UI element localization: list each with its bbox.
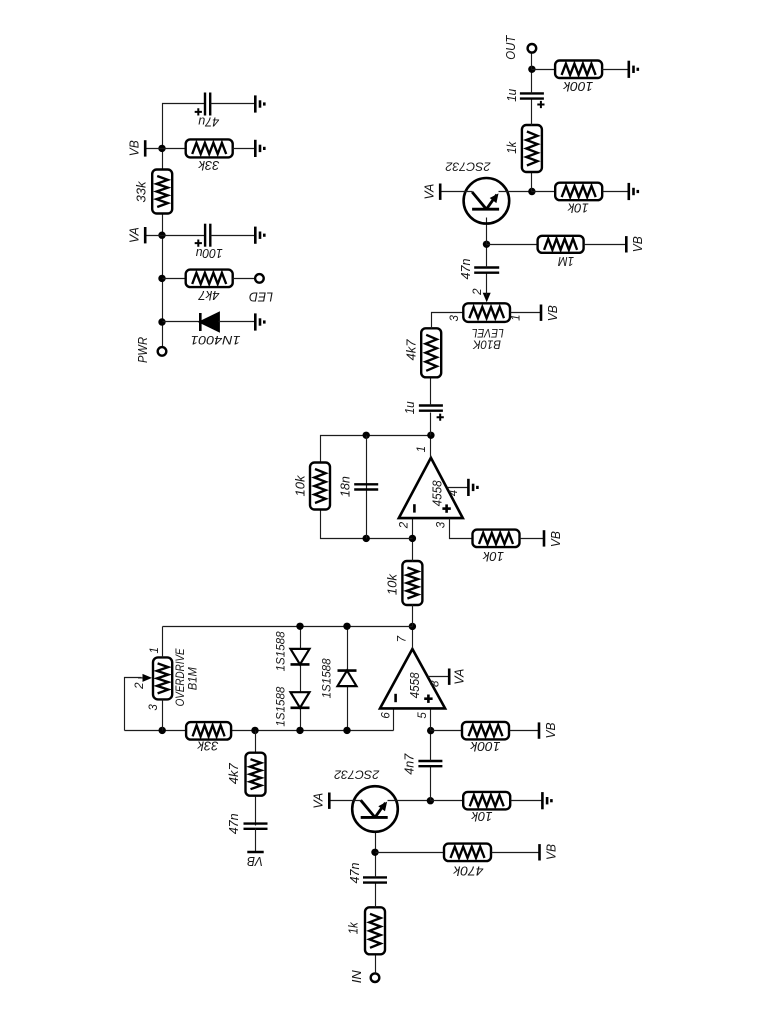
wire D 1N4001 to ground [219,321,256,323]
inverting input mark U1A [394,694,397,702]
wire pin 3 to R 10k [450,519,474,539]
ground (pin 4) [468,479,477,496]
terminal LED [255,274,264,283]
label 4n7 [401,753,416,775]
wire R 100k to ground [602,69,629,71]
svg-text:LEVEL: LEVEL [472,326,504,338]
svg-text:5: 5 [417,712,429,719]
terminal VB (100k) [538,722,541,738]
junction node Q1 base [371,849,378,856]
junction diode pair left [296,727,303,734]
svg-text:47n: 47n [347,863,362,884]
potentiometer LEVEL B10K [463,303,510,322]
label 33k (divider) [197,158,219,173]
junction op-amp pin 5 node [427,727,434,734]
resistor 10k (interstage) [402,561,422,605]
svg-text:VB: VB [548,531,563,547]
potentiometer OVERDRIVE B1M [153,657,172,699]
label pot pin 1 [149,647,161,653]
svg-text:IN: IN [349,970,364,984]
wire emitter to R 1k [531,171,533,192]
wire 100u to ground [211,235,256,237]
label 1M [558,254,574,269]
label 1k (output) [504,140,519,153]
diode D1 1S1588 (series pair) [291,649,310,665]
capacitor 47n (gain) [244,824,268,829]
svg-text:47n: 47n [458,259,473,280]
svg-text:VB: VB [127,140,142,156]
resistor 4k7 (LED) [186,270,233,288]
resistor 10k (pin3 bias) [473,530,520,548]
wire Q2 collector to VA [441,191,473,193]
wire Q1 collector to VA [330,800,362,802]
svg-text:4k7: 4k7 [198,288,220,303]
resistor 1M (Q2 bias) [538,236,584,253]
terminal OUT [528,44,537,53]
label 1k [345,921,360,934]
wire rail to D 1N4001 [163,321,201,323]
label node VB (LEVEL) [545,305,560,321]
wire LEVEL pin 1 to VB [511,312,541,314]
label pin 2 [399,521,411,529]
svg-text:1: 1 [511,314,523,320]
terminal VA (Q2) [439,184,442,200]
wire R 10k to ground [511,800,543,802]
label node VB (rail) [127,140,142,156]
junction U1A output [409,623,416,630]
ground (100u) [255,227,264,244]
label 1S1588 (D1) [275,631,287,672]
label LEVEL pin 2 [472,288,484,296]
svg-text:8: 8 [430,680,442,687]
label 1u (interstage) [402,401,417,414]
wire OUT node to R 100k [532,69,556,71]
label 4k7 (level) [404,339,419,361]
junction pot pin3 [159,727,166,734]
svg-text:3: 3 [436,521,448,528]
svg-text:4k7: 4k7 [404,339,419,361]
label LEVEL [472,326,504,338]
wire base into Q2 [486,218,488,245]
wire C 47n to Q2 base [486,245,488,268]
svg-text:100k: 100k [469,739,501,754]
svg-text:OUT: OUT [503,35,518,60]
wire emitter junction to C 4n7 [430,767,432,801]
wire pin 4 to ground [448,487,469,489]
svg-text:100u: 100u [196,246,223,261]
svg-text:B1M: B1M [188,667,200,690]
non-inverting input mark U1B [442,504,450,512]
svg-text:2: 2 [399,521,411,529]
label 4558 (U1A) [407,672,422,699]
label LEVEL pin 3 [449,315,461,322]
svg-text:1k: 1k [345,921,360,934]
label node VB (100k) [543,722,558,738]
wire 47u to ground [211,103,256,105]
label LEVEL pin 1 [511,314,523,320]
label 47n (gain) [226,813,241,834]
diode D3 1S1588 (reverse) [338,671,357,687]
svg-text:1S1588: 1S1588 [275,686,287,727]
svg-text:LED: LED [249,290,273,305]
svg-text:VB: VB [247,854,263,869]
wire IN to R 1k [375,954,377,974]
resistor 100k (output load) [555,61,602,79]
wire R 1M to VB [584,244,627,246]
svg-text:2SC732: 2SC732 [445,160,491,174]
ground (VB divider) [255,140,264,157]
svg-text:10k: 10k [566,201,588,216]
svg-text:VB: VB [544,844,559,860]
label 100k (output) [562,79,594,94]
junction pin 2 node [409,535,416,542]
svg-text:4k7: 4k7 [226,762,241,784]
label 10k (Q2) [566,201,588,216]
capacitor 47n (output coupling) [474,268,499,273]
svg-text:10k: 10k [482,549,504,564]
label pin 3 [436,521,448,528]
svg-text:47n: 47n [226,813,241,834]
resistor 33k (feedback series) [186,722,231,740]
wire Q2 emitter down [499,191,532,193]
wire R 4k7 to C 47n [255,797,257,826]
label 2SC732 (Q1) [334,767,380,781]
label node OUT [503,35,518,60]
transistor Q1 2SC732 (input buffer) [352,786,398,832]
label 1S1588 (D2) [275,686,287,727]
junction rail/4k7-LED [158,275,165,282]
label OVERDRIVE [175,648,187,706]
svg-text:100k: 100k [562,79,594,94]
wire 33k to ground [233,148,256,150]
svg-text:B10K: B10K [472,337,501,349]
svg-text:33k: 33k [197,158,219,173]
wire R 4k7 to LED terminal [233,278,256,280]
label node LED [249,290,273,305]
junction single diode left [343,727,350,734]
LEVEL wiper arrow [483,293,491,303]
polarity + (47u) [195,108,202,115]
svg-text:4558: 4558 [430,480,445,507]
label 1u (output) [504,89,519,102]
label node PWR [135,337,150,363]
capacitor 47n (input) [363,877,387,882]
label node VA (Q1) [311,793,326,809]
junction 33k/4k7 node [251,727,258,734]
label 4k7 (LED) [198,288,220,303]
label 10k (Q1) [470,809,492,824]
svg-text:6: 6 [380,712,392,719]
wire power rail PWR to 47u [163,104,206,352]
label 10k (interstage) [384,573,399,595]
svg-text:1N4001: 1N4001 [191,333,241,347]
wire R 10k to pin 2 [412,519,414,562]
wire R 4k7 to pot pin 3 [432,313,464,329]
terminal VB (gain branch) [247,851,263,854]
resistor 10k (U1B feedback) [310,463,330,510]
svg-text:2: 2 [134,682,146,690]
wire C 47n to VB [255,829,257,852]
capacitor 4n7 (coupling) [418,761,442,766]
op-amp U1A 4558 (first stage) [380,649,445,708]
svg-text:VA: VA [127,227,142,243]
label pin 5 [417,712,429,719]
wire Q1 emitter to junction [388,800,431,802]
wire diode pair branch [300,627,302,731]
wire VA stub and 100u [146,235,206,237]
terminal VA (rail) [144,227,147,243]
wire pin 1 output [430,436,432,458]
svg-text:10k: 10k [292,474,307,496]
wire U1A out to R 10k [412,605,414,627]
wire R 10k to ground [603,191,629,193]
label 100k (pin5) [469,739,501,754]
svg-text:1k: 1k [504,140,519,153]
capacitor 1u (output electrolytic) [520,93,544,98]
label 4k7 (gain) [226,762,241,784]
label node IN [349,970,364,984]
wire pin 7 output [412,627,414,649]
non-inverting input mark U1A [424,695,432,703]
junction OUT node [528,66,535,73]
svg-text:VA: VA [452,669,467,685]
junction single diode right [343,623,350,630]
svg-text:1: 1 [149,647,161,653]
terminal VB (LEVEL) [540,305,543,321]
label 4558 (U1B) [430,480,445,507]
wire pot wiper [125,678,142,731]
ground (1N4001) [255,313,264,330]
polarity + (1u interstage) [437,414,444,421]
resistor 470k (bias) [444,844,491,862]
label pin 8 [430,680,442,687]
svg-text:1S1588: 1S1588 [322,658,334,699]
wire to R 4k7 (gain) [255,731,257,752]
terminal VB (470k) [538,844,541,860]
label B10K [472,337,501,349]
wire rail to R 4k7 (LED) [163,278,187,280]
label 33k (feedback) [196,739,218,754]
label 2SC732 (Q2) [445,160,491,174]
wire C 1u to R 4k7 [430,377,432,406]
resistor 4k7 (gain) [246,753,266,796]
terminal VB (pin3) [543,530,546,546]
ground (Q1 emitter) [542,792,551,809]
svg-text:2: 2 [472,288,484,296]
label node VB (gain) [247,854,263,869]
svg-text:33k: 33k [196,739,218,754]
label 47u [198,114,219,129]
wire C 4n7 to op-amp pin 5 [430,731,432,761]
label pot pin 2 [134,682,146,690]
svg-text:10k: 10k [384,573,399,595]
polarity + (output 1u) [537,101,544,108]
svg-text:4n7: 4n7 [401,753,416,775]
wire 18n branch [366,436,368,539]
wire R 470k to VB [492,852,540,854]
wire pin5 node to R 100k [431,730,462,732]
label 10k (U1B feedback) [292,474,307,496]
diode D2 1S1588 (series pair) [291,692,310,708]
resistor 33k (rail series) [152,170,172,214]
label 1S1588 (D3) [322,658,334,699]
wire right rail (pot1 to output) [163,626,413,628]
label pot pin 3 [148,704,160,711]
transistor Q2 2SC732 (output buffer) [464,178,510,224]
svg-text:18n: 18n [338,476,353,497]
junction rail/VA node [158,232,165,239]
label 47n (output) [458,259,473,280]
label 1N4001 [191,333,241,347]
svg-text:7: 7 [396,635,408,642]
wire R 1k to C 1u [531,99,533,126]
svg-text:4: 4 [448,490,460,496]
label 100u [196,246,223,261]
capacitor 18n (U1B feedback) [354,484,378,489]
junction rail/1N4001 [158,318,165,325]
ground (47u) [255,95,264,112]
svg-text:1S1588: 1S1588 [275,631,287,672]
junction Q1 emitter [427,797,434,804]
resistor 1k (output) [522,125,542,172]
wire emitter to R 10k [431,800,464,802]
resistor 1k (input) [365,907,385,954]
svg-text:VA: VA [422,184,437,200]
label node VB (pin3) [548,531,563,547]
resistor 10k (Q2 emitter) [555,183,602,201]
svg-text:PWR: PWR [135,337,150,363]
capacitor 47u (VB filter) [205,93,210,116]
wire C 1u to OUT node [531,70,533,94]
wire pin 8 to VA [428,676,449,678]
junction Q2 base [483,241,490,248]
svg-text:VA: VA [311,793,326,809]
label 47n [347,863,362,884]
label pin 7 [396,635,408,642]
ground (output load) [629,61,638,78]
wire to OUT terminal [531,53,533,70]
svg-text:OVERDRIVE: OVERDRIVE [175,648,187,706]
label node VA (pin 8) [452,669,467,685]
ground (Q2 emitter) [629,183,638,200]
wire single diode branch [347,627,349,731]
terminal VA (pin 8) [448,669,451,685]
wire emitter to R 10k [532,191,556,193]
svg-text:VB: VB [545,305,560,321]
label pin 6 [380,712,392,719]
svg-text:3: 3 [148,704,160,711]
label pin 4 [448,490,460,496]
label B1M [188,667,200,690]
label node VB (470k) [544,844,559,860]
inverting input mark U1B [413,504,416,512]
svg-text:VB: VB [630,236,645,252]
terminal PWR [158,347,167,356]
wire wiper to C 47n [486,273,488,296]
svg-text:33k: 33k [133,180,148,202]
svg-text:1u: 1u [504,89,519,102]
label node VA (rail) [127,227,142,243]
svg-text:1: 1 [416,446,428,452]
wire pot pin 3 lead [162,700,164,731]
label 18n [338,476,353,497]
wire left rail top (wiper/pot3/33k) [125,730,187,732]
pot wiper arrow [138,674,152,682]
label 33k (rail) [133,180,148,202]
svg-text:VB: VB [543,722,558,738]
wire R 10k to VB [520,538,544,540]
terminal IN [371,973,380,982]
junction 18n left [363,535,370,542]
label 470k [452,863,484,878]
junction 18n right [363,432,370,439]
svg-text:4558: 4558 [407,672,422,699]
wire U1B feedback loop [321,436,431,539]
junction diode pair right [296,623,303,630]
terminal VB (rail) [144,140,147,156]
wire base to R 1M [487,244,538,246]
terminal VA (Q1 collector) [328,793,331,809]
wire R 100k to VB [510,730,539,732]
label node VB (1M) [630,236,645,252]
wire R 1k to C 47n [375,883,377,908]
resistor 4k7 (level series) [421,328,441,377]
capacitor 1u (interstage electrolytic) [419,406,443,411]
wire C 47n to Q1 base [375,833,377,878]
svg-text:1M: 1M [558,254,574,269]
op-amp U1B 4558 (second stage) [399,458,463,518]
resistor 100k (pin5 bias) [462,722,509,740]
label 10k (pin3) [482,549,504,564]
junction rail/VB node [158,145,165,152]
resistor 10k (Q1 emitter load) [463,792,510,810]
svg-text:470k: 470k [452,863,484,878]
wire to pin 5 [430,709,432,731]
svg-text:47u: 47u [198,114,219,129]
wire base to R 470k [376,852,444,854]
svg-text:2SC732: 2SC732 [334,767,380,781]
wire left rail bottom (33k to pin6) [232,730,394,732]
svg-text:10k: 10k [470,809,492,824]
junction U1B output [427,432,434,439]
svg-text:3: 3 [449,315,461,322]
label node VA (Q2) [422,184,437,200]
polarity + (100u) [195,240,202,247]
wire out to C 1u [430,413,432,436]
resistor 33k (VB divider) [186,139,233,157]
label pin 1 [416,446,428,452]
wire pot pin 1 lead [162,627,164,658]
diode 1N4001 (polarity protection) [200,313,219,331]
wire VB stub and 33k [146,148,187,150]
svg-text:1u: 1u [402,401,417,414]
junction Q2 emitter [528,188,535,195]
terminal VB (1M) [625,236,628,252]
wire pin 6 [393,709,395,731]
capacitor 100u (VA filter) [205,224,210,247]
